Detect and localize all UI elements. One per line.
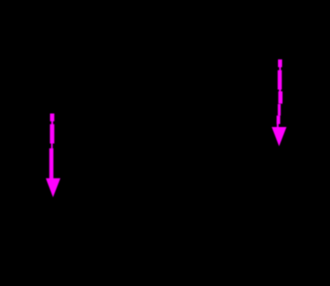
left arrow neck 2 (51, 143, 53, 149)
right arrow neck 3 (277, 124, 279, 128)
right arrow dash 1 (278, 59, 282, 67)
left arrow neck 1 (51, 121, 53, 125)
left arrow head (46, 178, 61, 197)
right arrow thin segment (278, 104, 281, 116)
right arrow lower block (277, 116, 281, 124)
right arrow (magenta, dashed, pointing down) (272, 59, 287, 146)
left arrow dash C (shaft) (49, 148, 53, 178)
right arrow head (272, 127, 287, 146)
left arrow (magenta, dashed, pointing down) (46, 114, 61, 198)
left arrow dash A (50, 114, 54, 122)
right arrow neck 2 (279, 89, 281, 92)
right arrow dash 2 (278, 70, 282, 89)
left arrow dash B (50, 124, 54, 143)
right arrow neck 1 (279, 67, 281, 71)
right arrow dash 3 (278, 91, 282, 103)
